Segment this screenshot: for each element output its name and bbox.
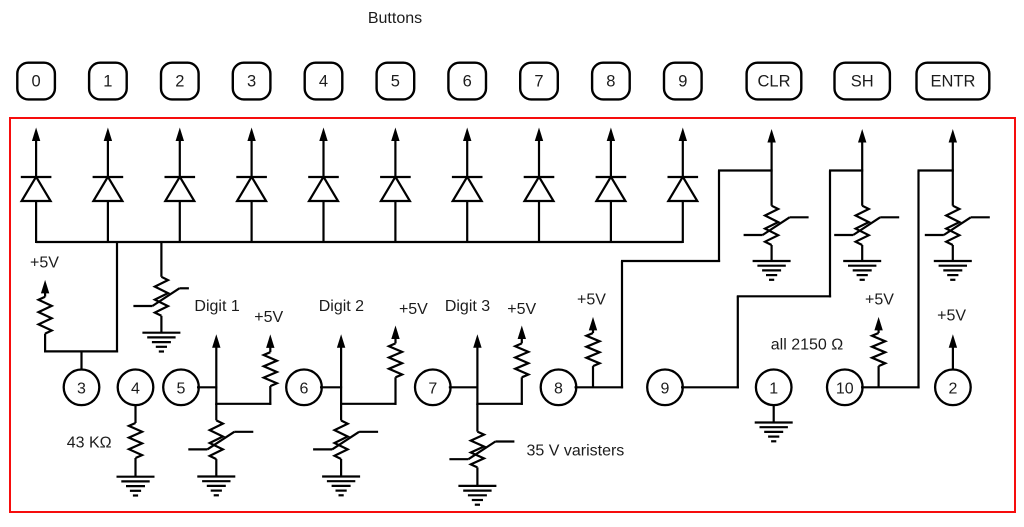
svg-text:CLR: CLR bbox=[757, 73, 790, 91]
resistor pull-up (node 8) bbox=[589, 317, 597, 331]
svg-text:9: 9 bbox=[678, 73, 687, 91]
wire node 5 to Digit 1 column bbox=[197, 386, 217, 388]
diode CR6 (button 6) bbox=[466, 201, 468, 243]
wire Digit 1 junction bbox=[215, 403, 271, 405]
svg-text:1: 1 bbox=[769, 380, 778, 397]
varistor CLR (35 V) bbox=[765, 206, 778, 245]
signal arrow node 2 +5V bbox=[949, 334, 957, 348]
node 2 bbox=[935, 370, 971, 406]
button 4 bbox=[305, 63, 343, 100]
varistor (bus, 35 V) bbox=[160, 242, 162, 277]
wire node 8 to CLR riser bbox=[575, 386, 624, 388]
svg-text:+5V: +5V bbox=[937, 308, 966, 325]
svg-text:7: 7 bbox=[534, 73, 543, 91]
svg-text:Digit 2: Digit 2 bbox=[319, 298, 364, 315]
wire left network horizontal bbox=[44, 350, 118, 352]
svg-text:+5V: +5V bbox=[254, 309, 283, 326]
ground (ENTR) bbox=[934, 260, 972, 262]
svg-text:Digit 3: Digit 3 bbox=[445, 298, 490, 315]
svg-text:3: 3 bbox=[247, 73, 256, 91]
resistor pull-up Digit 2 bbox=[391, 326, 399, 340]
svg-text:Buttons: Buttons bbox=[368, 10, 422, 27]
svg-text:+5V: +5V bbox=[577, 292, 606, 309]
svg-text:SH: SH bbox=[851, 73, 874, 91]
svg-text:ENTR: ENTR bbox=[930, 73, 975, 91]
svg-text:5: 5 bbox=[391, 73, 400, 91]
button 5 bbox=[377, 63, 415, 100]
button 3 bbox=[233, 63, 271, 100]
resistor pull-up Digit 1 bbox=[266, 334, 274, 348]
red boundary frame bbox=[10, 118, 1015, 512]
resistor pull-up (node 10) bbox=[874, 317, 882, 331]
ground (Digit 3) bbox=[458, 485, 496, 487]
varistor Digit 1 (35 V) bbox=[215, 404, 217, 421]
svg-text:9: 9 bbox=[661, 380, 670, 397]
ground (node 4) bbox=[117, 476, 155, 478]
ground (bus varistor) bbox=[142, 332, 180, 334]
node 3 bbox=[64, 370, 100, 406]
svg-text:7: 7 bbox=[428, 380, 437, 397]
wire node 1 to ground bbox=[773, 405, 775, 422]
varistor Digit 3 (35 V) bbox=[476, 404, 478, 432]
node 5 bbox=[163, 370, 199, 406]
button ENTR bbox=[917, 63, 990, 100]
node 8 bbox=[541, 370, 577, 406]
ground (Digit 1) bbox=[197, 475, 235, 477]
svg-text:Digit 1: Digit 1 bbox=[194, 298, 239, 315]
svg-text:43 KΩ: 43 KΩ bbox=[67, 435, 112, 452]
node 7 bbox=[415, 370, 451, 406]
svg-text:35 V varisters: 35 V varisters bbox=[526, 443, 624, 460]
svg-text:0: 0 bbox=[32, 73, 41, 91]
wire node 7 to Digit 3 column bbox=[449, 386, 479, 388]
diode CR1 (button 1) bbox=[107, 201, 109, 243]
svg-text:8: 8 bbox=[606, 73, 615, 91]
wire Digit 3 junction bbox=[476, 403, 522, 405]
svg-text:3: 3 bbox=[77, 380, 86, 397]
button 9 bbox=[664, 63, 702, 100]
node 9 bbox=[647, 370, 683, 406]
diode CR0 (button 0) bbox=[35, 201, 37, 243]
resistor (left pull-up, 43 K) bbox=[41, 280, 49, 294]
svg-text:2: 2 bbox=[948, 380, 957, 397]
varistor Digit 2 (35 V) bbox=[340, 404, 342, 421]
node 4 bbox=[118, 370, 154, 406]
svg-text:2: 2 bbox=[175, 73, 184, 91]
ground (CLR) bbox=[753, 260, 791, 262]
button 6 bbox=[448, 63, 486, 100]
wire SH riser bbox=[737, 296, 739, 388]
wire node 9 to SH riser bbox=[681, 386, 739, 388]
wire Digit 2 junction bbox=[340, 403, 396, 405]
svg-text:all 2150 Ω: all 2150 Ω bbox=[771, 337, 843, 354]
ground (Digit 2) bbox=[322, 475, 360, 477]
wire ENTR riser bbox=[917, 171, 919, 389]
ground (node 1) bbox=[755, 421, 793, 423]
diode CR4 (button 4) bbox=[322, 201, 324, 243]
svg-text:+5V: +5V bbox=[507, 301, 536, 318]
signal arrow Digit 3 bbox=[473, 334, 481, 348]
signal arrow Digit 1 bbox=[212, 334, 220, 348]
button CLR bbox=[747, 63, 802, 100]
node 6 bbox=[286, 370, 322, 406]
wire CLR riser bbox=[621, 261, 623, 388]
button 7 bbox=[520, 63, 558, 100]
svg-text:+5V: +5V bbox=[399, 301, 428, 318]
svg-text:4: 4 bbox=[319, 73, 328, 91]
button 1 bbox=[89, 63, 127, 100]
varistor ENTR (35 V) bbox=[946, 206, 959, 245]
resistor pull-up Digit 3 bbox=[518, 326, 526, 340]
signal arrow ENTR bbox=[949, 129, 957, 143]
wire bus to left network bbox=[116, 241, 118, 353]
svg-text:10: 10 bbox=[836, 380, 854, 397]
diode CR2 (button 2) bbox=[179, 201, 181, 243]
diode CR3 (button 3) bbox=[251, 201, 253, 243]
svg-text:8: 8 bbox=[554, 380, 563, 397]
svg-text:5: 5 bbox=[177, 380, 186, 397]
diode CR8 (button 8) bbox=[610, 201, 612, 243]
signal arrow CLR bbox=[767, 129, 775, 143]
ground (SH) bbox=[843, 260, 881, 262]
node 10 bbox=[827, 370, 863, 406]
button 2 bbox=[161, 63, 199, 100]
signal arrow SH bbox=[858, 129, 866, 143]
svg-text:4: 4 bbox=[131, 380, 140, 397]
button 8 bbox=[592, 63, 630, 100]
svg-text:+5V: +5V bbox=[865, 292, 894, 309]
wire node 3 stem bbox=[80, 351, 82, 370]
svg-text:1: 1 bbox=[103, 73, 112, 91]
button 0 bbox=[17, 63, 55, 100]
svg-text:+5V: +5V bbox=[30, 255, 59, 272]
svg-text:6: 6 bbox=[300, 380, 309, 397]
button SH bbox=[835, 63, 890, 100]
wire node 6 to Digit 2 column bbox=[320, 386, 342, 388]
svg-text:6: 6 bbox=[463, 73, 472, 91]
bus wire (diode common) bbox=[36, 241, 682, 243]
wire node 10 to ENTR riser bbox=[861, 386, 920, 388]
node 1 bbox=[756, 370, 792, 406]
signal arrow Digit 2 bbox=[337, 334, 345, 348]
varistor SH (35 V) bbox=[856, 206, 869, 245]
resistor R4 (43 K) bbox=[134, 405, 136, 423]
diode CR9 (button 9) bbox=[682, 201, 684, 243]
diode CR5 (button 5) bbox=[394, 201, 396, 243]
diode CR7 (button 7) bbox=[538, 201, 540, 243]
